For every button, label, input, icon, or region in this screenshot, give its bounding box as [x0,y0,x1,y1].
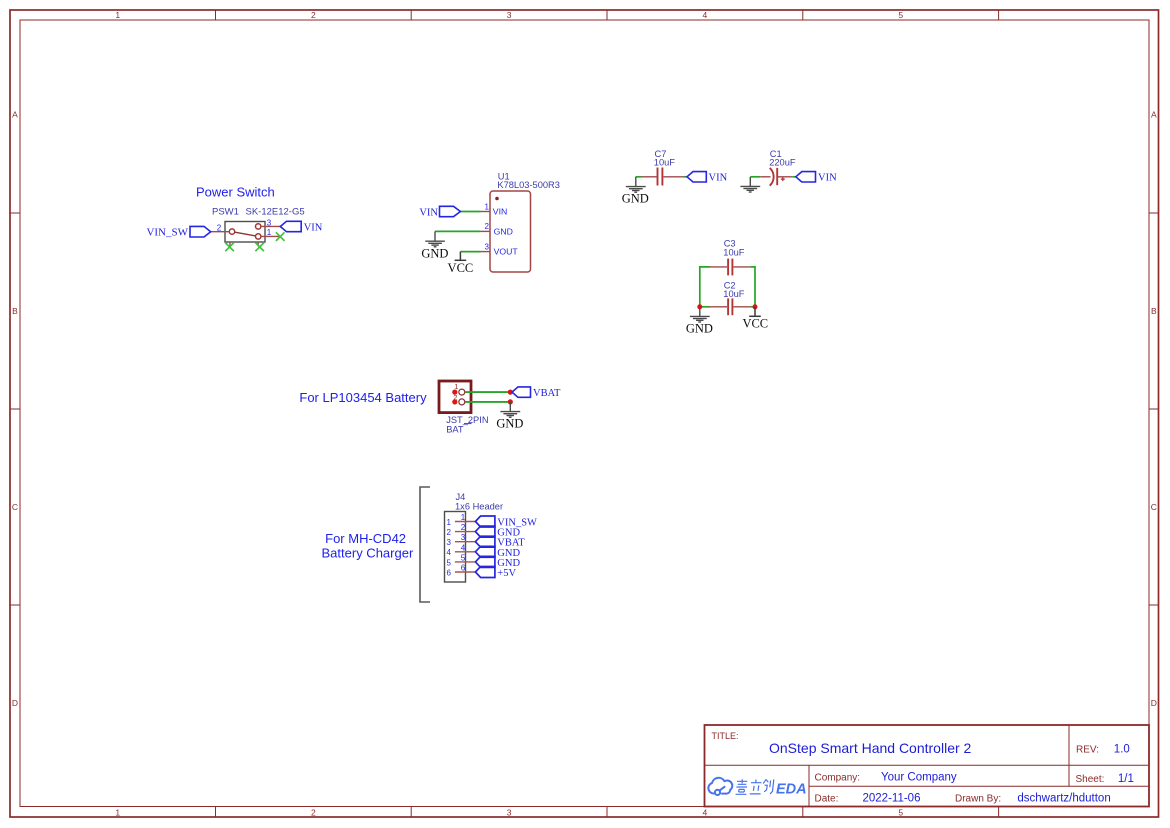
svg-text:VCC: VCC [448,261,474,275]
svg-text:2: 2 [447,528,452,537]
svg-text:VIN: VIN [818,172,837,183]
net port GND at J4 pin 4 [475,546,495,557]
svg-text:3: 3 [461,533,466,542]
switch PSW1 contact circle common [229,229,234,234]
svg-text:Drawn By:: Drawn By: [955,794,1001,805]
junction dot at GND [508,399,513,404]
svg-text:A: A [1151,110,1157,120]
svg-text:Sheet:: Sheet: [1076,774,1105,785]
net port VIN at C7 [687,172,706,182]
border column ticks bottom [216,807,999,818]
border row ticks left [10,213,20,605]
svg-text:1x6 Header: 1x6 Header [455,502,503,512]
svg-text:C: C [1151,502,1157,512]
wire C2 right to VCC junction [750,306,755,308]
svg-text:SK-12E12-G5: SK-12E12-G5 [246,207,305,218]
svg-text:5: 5 [898,10,903,20]
border row ticks right [1149,213,1159,605]
no-connect X on pin 5 [255,243,264,252]
net port VIN at U1 [440,206,461,216]
switch pin 3 stub [261,225,280,227]
C3 left pin stub [710,266,727,268]
ground symbol at C7 [626,177,646,192]
wire JST pin2 to GND [465,401,510,403]
net port VBAT [512,387,531,397]
J4 pin 5 [447,553,476,567]
svg-text:1: 1 [447,518,452,527]
U1 pin 3 stub [481,251,491,253]
svg-text:K78L03-500R3: K78L03-500R3 [497,180,560,190]
EasyEDA logo text [736,779,774,794]
svg-text:GND: GND [686,321,713,335]
svg-text:C: C [12,502,18,512]
capacitor C7 plates [658,168,663,186]
switch PSW1 contact circle pin1 [256,234,261,239]
svg-text:1: 1 [115,808,120,818]
svg-text:10uF: 10uF [654,158,676,168]
wire C7 right to VIN port [684,176,688,178]
C1 left pin stub [760,176,770,178]
border column ticks top [216,10,999,20]
capacitor C1 curved plate [770,168,774,186]
net port VBAT at J4 pin 3 [475,536,495,547]
wire GND junction to C2 left [700,306,710,308]
wire C1 right to VIN port [792,176,796,178]
capacitor C3 plates [728,259,732,276]
junction dot at GND corner [697,304,702,309]
switch pin 4 stub below [229,242,231,246]
J4 pin 6 [447,564,476,578]
svg-text:5: 5 [898,808,903,818]
svg-text:1/1: 1/1 [1118,773,1134,785]
VCC symbol below C2 right [749,307,761,317]
svg-text:1: 1 [267,228,272,237]
svg-text:For LP103454 Battery: For LP103454 Battery [299,390,427,405]
ground symbol at U1 pin 2 [425,231,445,246]
switch PSW1 body [225,222,265,243]
svg-text:1: 1 [461,513,466,522]
JST pin 1 circle [459,389,465,395]
svg-text:Company:: Company: [815,773,861,784]
svg-text:1.0: 1.0 [1114,744,1130,756]
svg-text:1: 1 [454,382,458,391]
svg-text:VIN_SW: VIN_SW [146,227,188,239]
svg-text:2: 2 [311,10,316,20]
J4 pin 2 [447,523,476,537]
C2 right pin stub [733,306,750,308]
U1 pin 1 stub [481,211,491,213]
svg-text:Battery Charger: Battery Charger [322,546,414,561]
J4 pin 4 [447,543,476,557]
C3 right pin stub [733,266,750,268]
svg-text:3: 3 [447,538,452,547]
VCC symbol at U1 pin 3 [455,252,467,261]
connector JST battery body [439,381,471,413]
capacitor C1 plus sign [781,177,785,181]
svg-text:PSW1: PSW1 [212,207,239,218]
wire C3 to top right corner [750,267,755,307]
border column labels top [115,10,903,20]
svg-text:For MH-CD42: For MH-CD42 [325,531,406,546]
svg-text:GND: GND [496,417,523,431]
svg-text:D: D [1151,698,1157,708]
svg-text:3: 3 [507,10,512,20]
J4 pin 3 [447,533,476,547]
wire U1 pin 2 to ground [435,230,481,232]
svg-text:EDA: EDA [776,782,807,798]
EasyEDA logo cloud [708,778,732,795]
wire top left corner to C3 [700,267,710,307]
junction dot at VBAT [508,390,513,395]
svg-text:+5V: +5V [497,568,516,579]
ground symbol below JST [500,402,520,417]
capacitor C1 straight plate [776,168,778,185]
border row labels right [1151,110,1157,709]
svg-text:TITLE:: TITLE: [712,731,739,741]
U1 pin 2 stub [481,230,491,232]
no-connect X on pin 1 [276,232,285,241]
svg-text:3: 3 [485,242,490,251]
JST pin 2 circle [459,399,465,405]
svg-text:6: 6 [447,568,452,577]
switch pin 5 stub below [257,242,259,246]
border column labels bottom [115,808,903,818]
op-amp U1 body [490,191,531,272]
svg-text:1: 1 [485,202,490,211]
svg-text:Power Switch: Power Switch [196,185,275,200]
svg-text:2022-11-06: 2022-11-06 [863,793,921,805]
svg-text:A: A [12,110,18,120]
svg-text:B: B [12,306,18,316]
svg-text:3: 3 [267,218,272,227]
svg-text:4: 4 [461,543,466,552]
svg-text:BAT: BAT [446,424,464,434]
svg-text:1: 1 [115,10,120,20]
net port VIN at C1 [796,172,816,182]
svg-text:B: B [1151,306,1157,316]
JST pin 2 dot [452,399,457,404]
grouping bracket [420,487,430,602]
wire GND to C7 left [636,176,641,178]
svg-text:VIN: VIN [304,222,323,233]
svg-text:VBAT: VBAT [533,388,561,399]
net port VIN_SW [190,226,211,237]
border row labels left [12,110,18,709]
ground symbol below C2 [690,307,710,322]
JST pin 1 dot [452,390,457,395]
svg-text:VCC: VCC [742,317,768,331]
ground symbol at C1 [740,177,760,192]
svg-text:dschwartz/hdutton: dschwartz/hdutton [1017,793,1110,805]
net port GND at J4 pin 5 [475,556,495,567]
svg-text:Date:: Date: [815,794,839,805]
svg-text:2: 2 [217,224,222,233]
title block frame [705,725,1150,807]
svg-text:D: D [12,698,18,708]
svg-text:4: 4 [447,548,452,557]
svg-text:4: 4 [703,808,708,818]
header J4 body [445,512,466,583]
svg-text:REV:: REV: [1076,745,1099,756]
net port VIN right of switch [280,221,301,231]
svg-text:2: 2 [485,222,490,231]
C1 right pin stub [777,176,792,178]
svg-text:VIN: VIN [419,207,438,218]
svg-text:Your Company: Your Company [881,772,957,784]
svg-text:VIN: VIN [493,207,507,217]
net port +5V at J4 pin 6 [475,567,495,578]
svg-text:220uF: 220uF [769,158,796,168]
svg-text:10uF: 10uF [723,289,745,299]
C7 right pin stub [663,176,683,178]
U1 pin1 marker dot [495,197,499,201]
svg-text:GND: GND [421,246,448,260]
svg-text:2: 2 [311,808,316,818]
svg-text:10uF: 10uF [723,247,745,257]
svg-text:J4: J4 [456,492,466,502]
svg-text:OnStep Smart Hand Controller 2: OnStep Smart Hand Controller 2 [769,740,972,756]
svg-text:VOUT: VOUT [494,247,519,257]
wire GND to C1 left [750,176,760,178]
switch PSW1 contact circle pin3 [256,224,261,229]
switch pin 2 stub [211,231,230,233]
no-connect X on pin 4 [225,243,234,252]
svg-text:5: 5 [461,553,466,562]
C2 left pin stub [710,306,727,308]
svg-text:GND: GND [494,227,513,237]
svg-text:5: 5 [447,558,452,567]
capacitor C2 plates [728,298,732,315]
net port VIN_SW at J4 pin 1 [475,516,495,527]
wire JST pin1 to VBAT [465,391,510,393]
switch pin 1 stub [261,235,281,237]
svg-text:3: 3 [507,808,512,818]
J4 pin 1 [447,513,476,527]
svg-text:VIN: VIN [709,172,728,183]
JST value overline mark [464,423,472,425]
svg-text:4: 4 [703,10,708,20]
wire U1 pin 3 to VCC [460,251,480,253]
switch PSW1 lever [235,232,255,236]
C7 left pin stub [641,176,657,178]
junction dot at VCC corner [753,304,758,309]
svg-text:2: 2 [461,523,466,532]
wire VIN to U1 pin 1 [460,211,480,213]
svg-text:GND: GND [622,192,649,206]
svg-text:6: 6 [461,564,466,573]
net port GND at J4 pin 2 [475,526,495,537]
